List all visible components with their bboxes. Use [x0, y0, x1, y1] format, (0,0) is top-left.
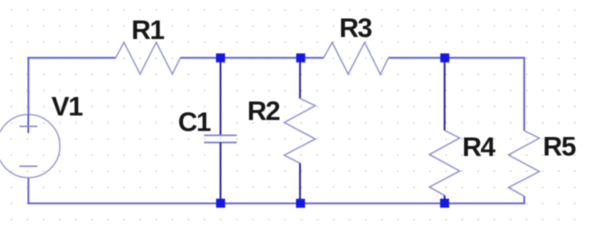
wire top rail left segment: [28, 58, 115, 114]
junction node top R2: [296, 53, 305, 62]
svg-text:R5: R5: [543, 132, 576, 162]
resistor R3: [324, 42, 389, 74]
junction node top C1: [216, 53, 225, 62]
resistor R1: [116, 42, 181, 74]
junction node top R4: [440, 53, 449, 62]
resistor R4: [429, 58, 459, 203]
svg-text:R4: R4: [462, 132, 495, 162]
svg-text:R1: R1: [131, 15, 164, 45]
capacitor C1: [204, 58, 237, 203]
voltage source V1: [0, 115, 60, 178]
junction node bottom C1: [216, 199, 225, 208]
junction node bottom R4: [440, 199, 449, 208]
svg-text:R3: R3: [339, 13, 372, 43]
resistor R2: [284, 58, 315, 203]
svg-text:R2: R2: [247, 96, 279, 126]
junction node bottom R2: [296, 199, 305, 208]
svg-text:C1: C1: [178, 107, 211, 137]
resistor R5: [508, 131, 539, 196]
wire top rail right segment: [388, 58, 524, 131]
svg-text:V1: V1: [51, 92, 83, 122]
wire bottom rail: [28, 178, 524, 204]
wire top rail middle segment: [180, 57, 323, 59]
